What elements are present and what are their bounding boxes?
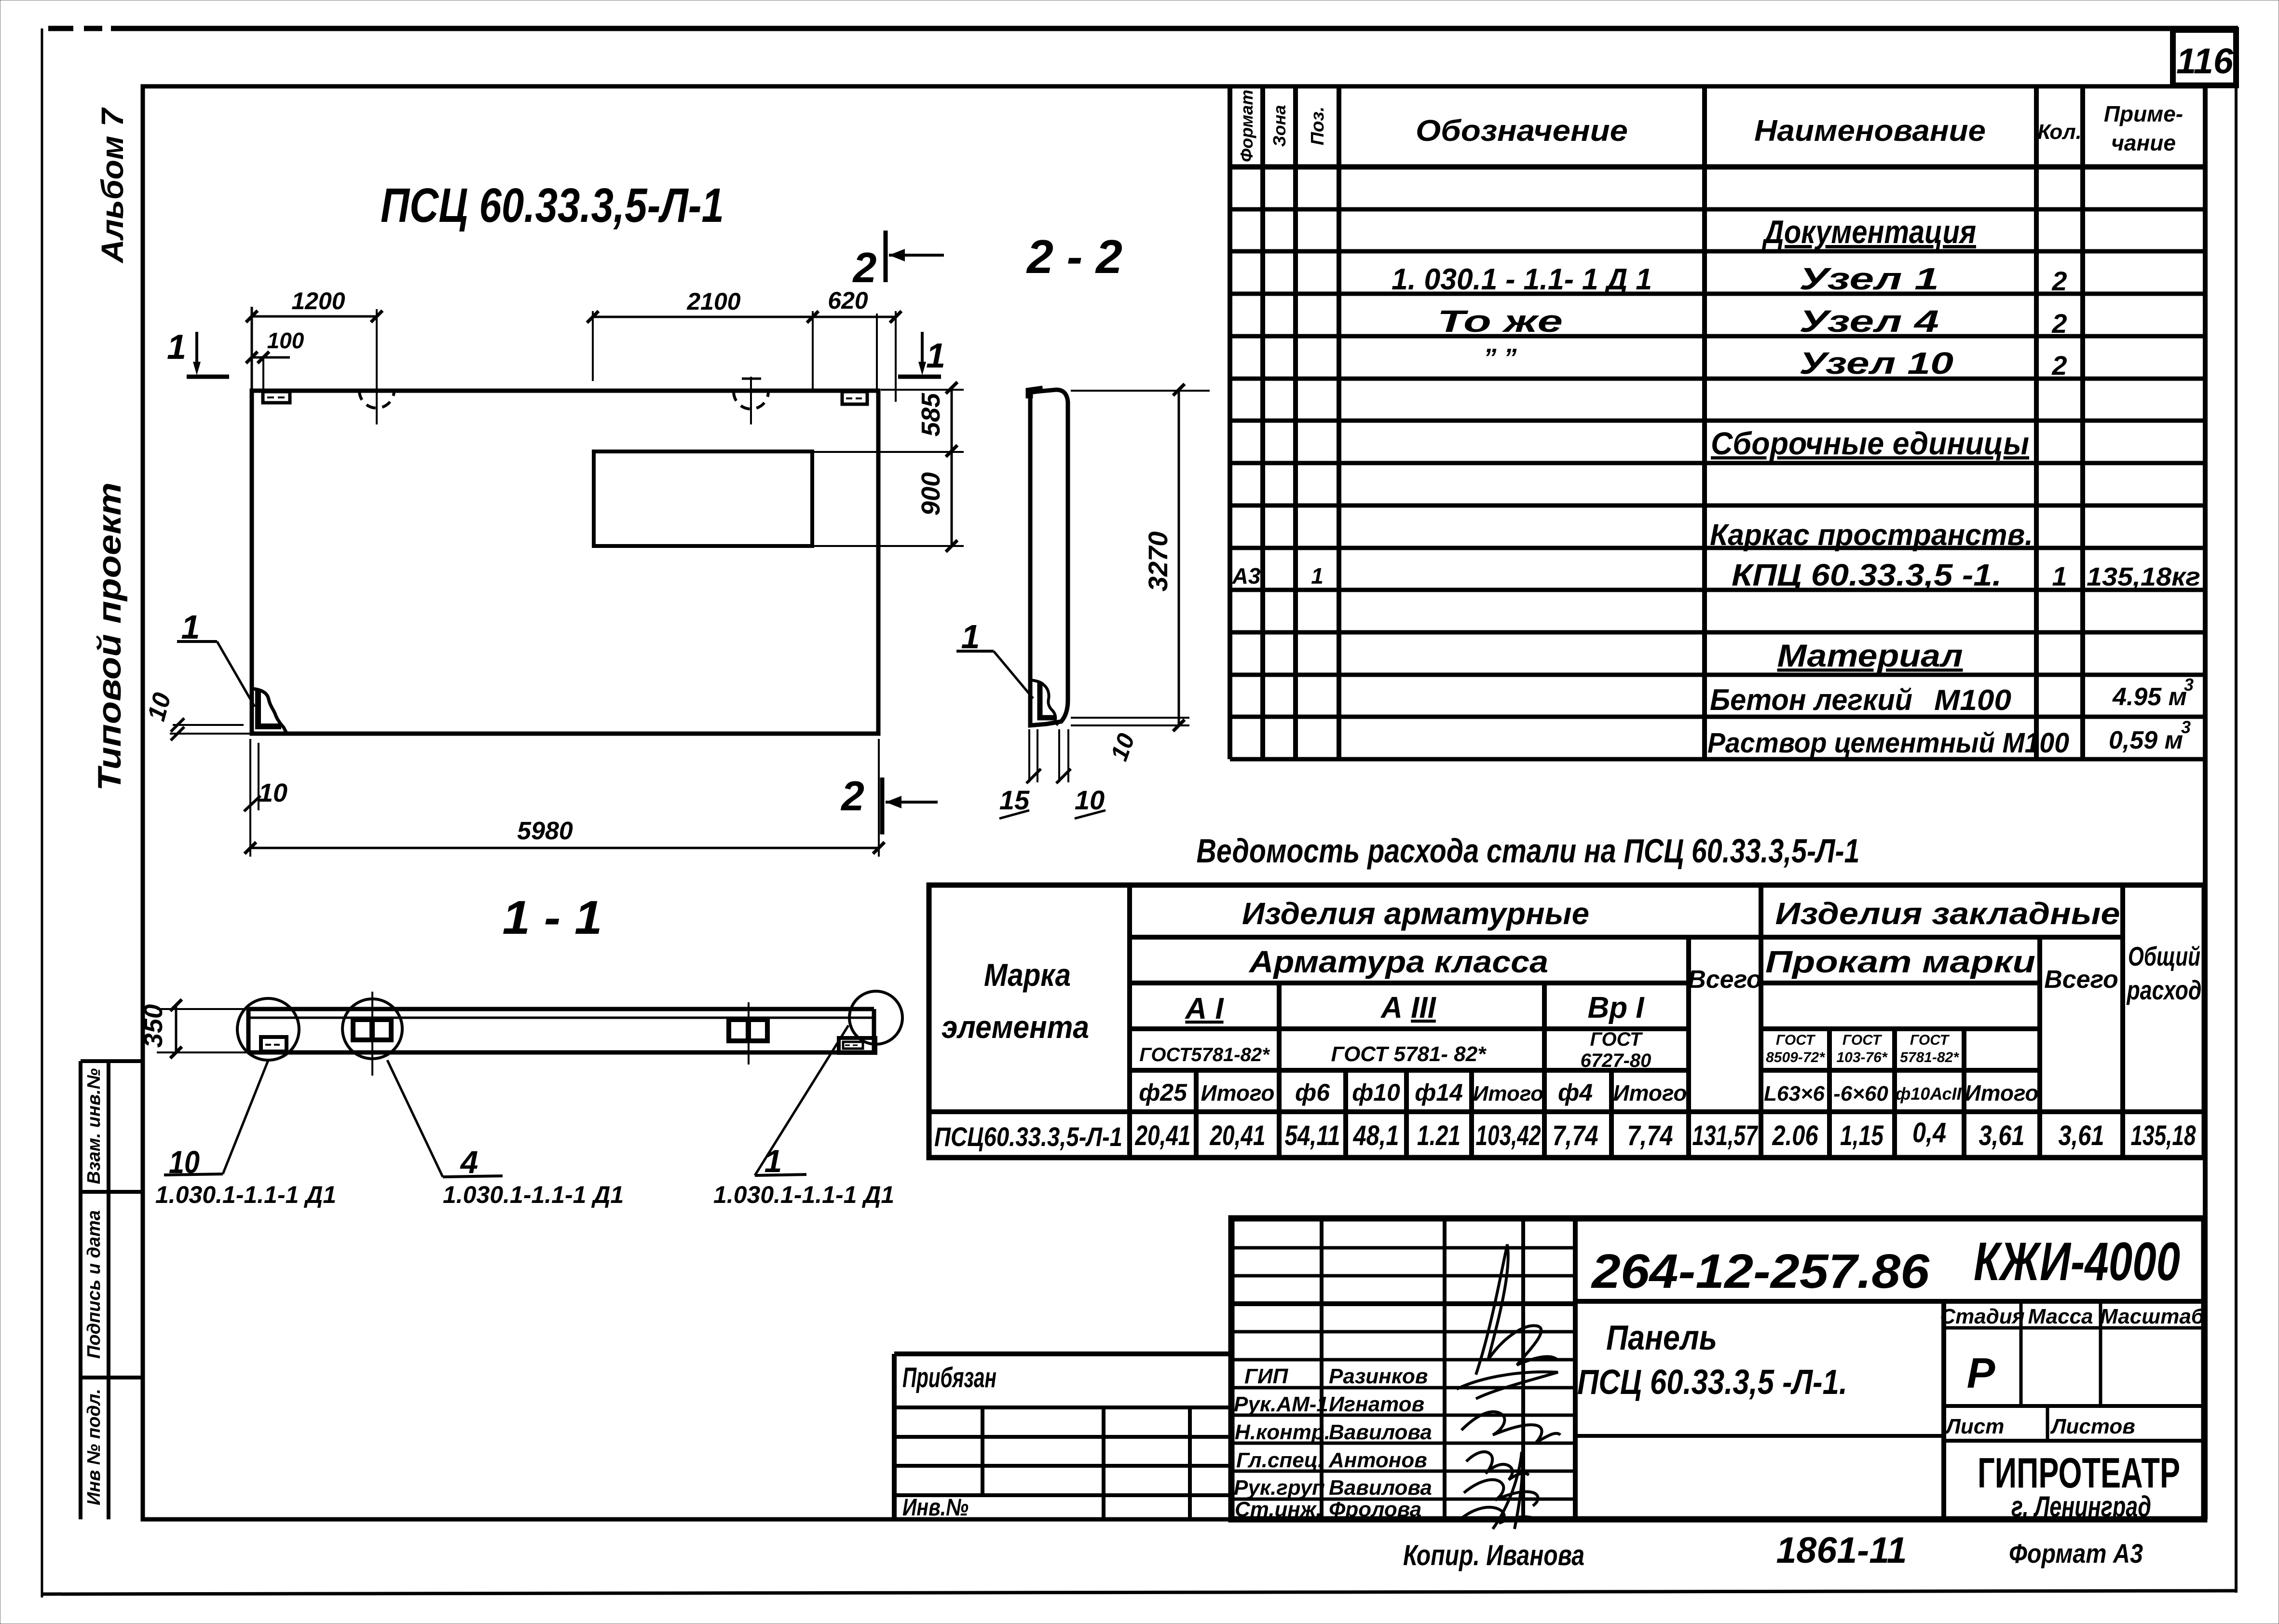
svg-text:4: 4 xyxy=(460,1144,478,1180)
svg-text:10: 10 xyxy=(259,778,287,807)
svg-text:Приме-: Приме- xyxy=(2104,101,2183,126)
title block roles and names xyxy=(1234,1365,1432,1521)
svg-text:Итого: Итого xyxy=(1201,1080,1275,1105)
svg-text:КЖИ-4000: КЖИ-4000 xyxy=(1974,1231,2180,1292)
svg-text:20,41: 20,41 xyxy=(1210,1120,1266,1151)
svg-text:2.06: 2.06 xyxy=(1772,1120,1818,1151)
section 1-1 panel strip xyxy=(248,1009,874,1052)
svg-text:То же: То же xyxy=(1437,304,1563,339)
svg-text:Фролова: Фролова xyxy=(1329,1498,1421,1521)
detail circle right xyxy=(849,991,902,1044)
svg-text:L63×6: L63×6 xyxy=(1764,1082,1825,1105)
title block left rows xyxy=(1231,1248,1575,1499)
svg-text:4.95 м: 4.95 м xyxy=(2112,683,2187,711)
spec row: Раствор цементный М100 xyxy=(1707,717,2191,759)
svg-text:131,57: 131,57 xyxy=(1692,1120,1759,1151)
svg-text:ПСЦ60.33.3,5-Л-1: ПСЦ60.33.3,5-Л-1 xyxy=(934,1121,1122,1152)
lifting loop right (dashed semicircle) xyxy=(734,377,768,424)
svg-text:Общий: Общий xyxy=(2128,941,2200,971)
svg-text:Формат: Формат xyxy=(1237,90,1256,162)
leader detail 4 with doc designation xyxy=(387,1060,624,1208)
title block outer frame xyxy=(1231,1218,2204,1519)
svg-text:1 - 1: 1 - 1 xyxy=(503,891,602,944)
svg-text:20,41: 20,41 xyxy=(1135,1120,1191,1151)
svg-text:1.030.1-1.1-1 Д1: 1.030.1-1.1-1 Д1 xyxy=(155,1181,336,1208)
svg-text:Стадия: Стадия xyxy=(1940,1305,2024,1328)
title block extension (Прибязан) xyxy=(894,1354,1231,1519)
spec row: Узел 10 xyxy=(1483,343,2067,381)
svg-text:Инв.№: Инв.№ xyxy=(902,1494,969,1521)
svg-text:135,18кг: 135,18кг xyxy=(2087,562,2200,591)
svg-text:Материал: Материал xyxy=(1777,638,1963,673)
svg-text:Рук.АМ-1: Рук.АМ-1 xyxy=(1234,1392,1328,1416)
svg-text:100: 100 xyxy=(267,328,304,353)
svg-text:103,42: 103,42 xyxy=(1476,1120,1541,1151)
svg-text:7,74: 7,74 xyxy=(1627,1120,1673,1151)
svg-text:Поз.: Поз. xyxy=(1308,107,1328,146)
svg-text:2: 2 xyxy=(840,773,864,819)
svg-text:Инв № подл.: Инв № подл. xyxy=(84,1389,104,1505)
svg-text:ГОСТ5781-82*: ГОСТ5781-82* xyxy=(1139,1044,1270,1065)
section mark 1 (left) xyxy=(167,328,229,377)
svg-text:ПСЦ 60.33.3,5-Л-1: ПСЦ 60.33.3,5-Л-1 xyxy=(381,178,724,232)
embedded channel (right middle) xyxy=(729,1002,767,1064)
steel table frame xyxy=(929,885,2204,1158)
svg-text:10: 10 xyxy=(169,1144,200,1180)
signatures scribbles xyxy=(1457,1244,1560,1529)
svg-text:Подпись и дата: Подпись и дата xyxy=(84,1210,104,1359)
svg-text:1: 1 xyxy=(2052,561,2067,591)
detail circle left xyxy=(237,998,299,1060)
spec row: Документация xyxy=(1762,214,1976,250)
svg-text:Листов: Листов xyxy=(2050,1415,2135,1438)
svg-text:3,61: 3,61 xyxy=(2059,1120,2104,1151)
svg-text:Итого: Итого xyxy=(1965,1080,2039,1105)
svg-text:Арматура класса: Арматура класса xyxy=(1248,944,1548,979)
side stamp boxes xyxy=(81,1061,143,1519)
steel table verticals xyxy=(1127,885,1132,1158)
panel outline xyxy=(252,391,878,734)
svg-text:Игнатов: Игнатов xyxy=(1329,1392,1424,1416)
svg-text:Типовой проект: Типовой проект xyxy=(91,482,128,791)
svg-text:Масштаб: Масштаб xyxy=(2100,1305,2205,1328)
svg-text:ГИП: ГИП xyxy=(1244,1365,1289,1388)
svg-text:1,15: 1,15 xyxy=(1840,1120,1884,1151)
svg-text:Наименование: Наименование xyxy=(1754,114,1986,148)
svg-text:2: 2 xyxy=(2051,266,2067,296)
svg-text:Узел 4: Узел 4 xyxy=(1799,304,1939,339)
dimension 5980 (bottom) xyxy=(245,739,885,857)
svg-text:чание: чание xyxy=(2111,130,2176,155)
svg-text:Гл.спец.: Гл.спец. xyxy=(1236,1448,1324,1472)
svg-text:6727-80: 6727-80 xyxy=(1581,1050,1651,1071)
dimensions 585 / 900 (right side) xyxy=(814,382,964,552)
steel table horizontals xyxy=(1130,935,2123,940)
dimension 100 xyxy=(246,328,304,389)
svg-text:1.030.1-1.1-1 Д1: 1.030.1-1.1-1 Д1 xyxy=(713,1181,894,1208)
svg-text:900: 900 xyxy=(916,472,945,516)
svg-text:-6×60: -6×60 xyxy=(1833,1082,1888,1105)
title block left columns xyxy=(1322,1218,1575,1519)
svg-text:Обозначение: Обозначение xyxy=(1416,114,1628,148)
svg-text:Рук.груп: Рук.груп xyxy=(1234,1476,1325,1500)
section mark 1 (right) xyxy=(898,332,945,377)
svg-text:1: 1 xyxy=(167,328,186,367)
svg-text:135,18: 135,18 xyxy=(2131,1120,2197,1151)
section mark 2 (top) xyxy=(852,231,944,291)
svg-text:Марка: Марка xyxy=(984,957,1071,993)
small dimension 10 below bottom-left corner xyxy=(244,743,287,811)
title block right section xyxy=(1941,1301,1946,1519)
svg-text:расход: расход xyxy=(2126,975,2202,1005)
svg-text:1200: 1200 xyxy=(291,287,345,314)
svg-text:Ведомость расхода стали на ПСЦ: Ведомость расхода стали на ПСЦ 60.33.3,5… xyxy=(1197,832,1860,870)
svg-text:3: 3 xyxy=(2181,717,2191,737)
svg-text:Альбом 7: Альбом 7 xyxy=(95,107,130,264)
svg-text:г. Ленинград: г. Ленинград xyxy=(2011,1490,2151,1523)
section mark 2 (bottom) xyxy=(840,773,938,834)
svg-text:0,4: 0,4 xyxy=(1912,1117,1946,1148)
svg-text:2 - 2: 2 - 2 xyxy=(1026,230,1122,283)
svg-text:5781-82*: 5781-82* xyxy=(1900,1050,1959,1065)
dimension 350 xyxy=(139,999,248,1058)
svg-text:Формат А3: Формат А3 xyxy=(2009,1538,2143,1569)
spec table header bottom xyxy=(1230,164,2205,170)
svg-text:10: 10 xyxy=(142,690,177,724)
svg-text:1. 030.1 - 1.1- 1 Д 1: 1. 030.1 - 1.1- 1 Д 1 xyxy=(1392,263,1652,296)
right border line xyxy=(2235,28,2238,1593)
svg-text:Всего: Всего xyxy=(1688,966,1762,994)
svg-text:Антонов: Антонов xyxy=(1328,1448,1427,1472)
svg-text:Панель: Панель xyxy=(1606,1319,1717,1357)
svg-text:10: 10 xyxy=(1105,730,1140,764)
detail circle middle xyxy=(342,999,402,1059)
left border line xyxy=(41,28,43,1597)
svg-text:116: 116 xyxy=(2176,41,2234,81)
svg-text:1861-11: 1861-11 xyxy=(1776,1530,1907,1571)
svg-text:264-12-257.86: 264-12-257.86 xyxy=(1591,1244,1930,1298)
embedded plate (right end, detail 1) xyxy=(839,1038,875,1053)
dimension 3270 xyxy=(1071,384,1210,731)
svg-text:ГОСТ: ГОСТ xyxy=(1842,1032,1883,1048)
svg-text:А III: А III xyxy=(1380,991,1436,1024)
svg-text:Сборочные единицы: Сборочные единицы xyxy=(1711,425,2029,461)
section 2-2 panel outline xyxy=(1030,390,1068,725)
lifting loop left (dashed semicircle) xyxy=(359,309,394,424)
svg-text:ГОСТ: ГОСТ xyxy=(1910,1032,1950,1048)
svg-text:Масса: Масса xyxy=(2028,1305,2093,1328)
page number box 116 xyxy=(2173,30,2236,85)
svg-text:Узел 10: Узел 10 xyxy=(1799,346,1953,381)
svg-text:А3: А3 xyxy=(1232,563,1261,588)
svg-text:Н.контр.: Н.контр. xyxy=(1235,1420,1330,1444)
svg-text:3,61: 3,61 xyxy=(1979,1120,2025,1151)
svg-text:элемента: элемента xyxy=(942,1009,1089,1045)
leader detail 1 with doc designation xyxy=(713,1025,894,1208)
svg-text:Итого: Итого xyxy=(1613,1080,1687,1105)
svg-text:ПСЦ 60.33.3,5 -Л-1.: ПСЦ 60.33.3,5 -Л-1. xyxy=(1577,1363,1847,1402)
embedded plate top-right xyxy=(842,392,867,404)
embedded channel (middle, detail 4) xyxy=(353,992,391,1076)
svg-text:Взам. инв.№: Взам. инв.№ xyxy=(84,1068,104,1184)
svg-text:Разинков: Разинков xyxy=(1329,1365,1428,1388)
small dimension 10 at corner (left, rotated) xyxy=(142,690,252,740)
svg-text:” ”: ” ” xyxy=(1483,343,1516,372)
svg-text:585: 585 xyxy=(916,393,945,437)
top border line xyxy=(48,26,2238,31)
spec table row lines xyxy=(1230,207,2205,212)
embedded plate top-left xyxy=(263,392,290,403)
section 2-2 corner thick mark top-left xyxy=(1029,389,1043,398)
svg-text:3: 3 xyxy=(2184,675,2194,695)
svg-text:Всего: Всего xyxy=(2044,966,2118,994)
svg-text:0,59 м: 0,59 м xyxy=(2109,726,2183,754)
svg-text:Итого: Итого xyxy=(1473,1082,1543,1105)
svg-text:Документация: Документация xyxy=(1762,214,1976,250)
svg-text:1.030.1-1.1-1 Д1: 1.030.1-1.1-1 Д1 xyxy=(443,1181,624,1208)
svg-text:М100: М100 xyxy=(1934,684,2011,716)
svg-text:3270: 3270 xyxy=(1143,532,1173,592)
leader detail 10 with doc designation xyxy=(155,1059,336,1208)
svg-text:Вавилова: Вавилова xyxy=(1329,1420,1432,1444)
svg-text:2: 2 xyxy=(2051,350,2067,381)
svg-text:Р: Р xyxy=(1967,1349,1995,1397)
dimensions 15 and 10 below section 2-2 xyxy=(999,729,1105,819)
svg-text:350: 350 xyxy=(139,1004,168,1048)
spec row: КПЦ 60.33.3,5-1 xyxy=(1232,558,2200,592)
embedded plate (left, detail 10) xyxy=(261,1037,287,1051)
svg-text:Узел 1: Узел 1 xyxy=(1799,261,1939,296)
svg-text:ГОСТ 5781- 82*: ГОСТ 5781- 82* xyxy=(1331,1042,1487,1066)
bottom border line xyxy=(42,1591,2236,1594)
svg-text:ф4: ф4 xyxy=(1558,1079,1593,1106)
svg-text:Ст.инж.: Ст.инж. xyxy=(1235,1498,1322,1521)
svg-text:Вавилова: Вавилова xyxy=(1329,1476,1432,1500)
spec row: Бетон легкий М100 xyxy=(1710,675,2194,717)
svg-text:54,11: 54,11 xyxy=(1285,1120,1340,1151)
svg-text:ф25: ф25 xyxy=(1139,1079,1187,1106)
svg-text:Изделия арматурные: Изделия арматурные xyxy=(1242,896,1589,931)
svg-text:2: 2 xyxy=(2051,308,2067,339)
svg-text:ф6: ф6 xyxy=(1295,1079,1330,1106)
svg-text:ф10: ф10 xyxy=(1352,1079,1400,1106)
svg-text:48,1: 48,1 xyxy=(1353,1120,1399,1151)
corner detail (узел 1) at panel bottom-left xyxy=(253,689,287,734)
svg-text:ф10АсII: ф10АсII xyxy=(1895,1084,1962,1104)
section 2-2 corner detail (узел 1) xyxy=(1031,680,1058,725)
svg-text:103-76*: 103-76* xyxy=(1836,1050,1887,1065)
svg-text:7,74: 7,74 xyxy=(1553,1120,1598,1151)
svg-text:Копир. Иванова: Копир. Иванова xyxy=(1403,1539,1584,1571)
title block middle divider xyxy=(1575,1299,2204,1304)
svg-text:5980: 5980 xyxy=(517,817,573,845)
svg-text:Зона: Зона xyxy=(1269,105,1289,147)
svg-text:Изделия закладные: Изделия закладные xyxy=(1775,896,2120,931)
detail callout 1 (section 2-2) xyxy=(956,618,1033,698)
svg-text:1: 1 xyxy=(764,1143,782,1179)
svg-text:1: 1 xyxy=(926,337,945,375)
main drawing frame xyxy=(143,86,2205,1519)
window opening xyxy=(594,451,812,546)
svg-text:Прокат марки: Прокат марки xyxy=(1765,944,2035,979)
svg-text:1: 1 xyxy=(1311,563,1324,588)
spec row: Узел 4 xyxy=(1437,304,2067,339)
svg-text:ГОСТ: ГОСТ xyxy=(1590,1029,1644,1050)
svg-text:КПЦ 60.33.3,5 -1.: КПЦ 60.33.3,5 -1. xyxy=(1732,558,2002,592)
spec table verticals xyxy=(1228,86,1232,759)
svg-text:ГОСТ: ГОСТ xyxy=(1776,1032,1816,1048)
svg-text:Прибязан: Прибязан xyxy=(902,1362,996,1393)
svg-text:2: 2 xyxy=(852,244,877,291)
dimension 620 xyxy=(813,287,901,402)
svg-text:Лист: Лист xyxy=(1945,1415,2005,1438)
svg-text:Бетон легкий: Бетон легкий xyxy=(1710,683,1912,717)
svg-text:8509-72*: 8509-72* xyxy=(1766,1050,1825,1065)
spec row: Узел 1 xyxy=(1392,261,2067,296)
svg-text:Вр I: Вр I xyxy=(1587,991,1645,1024)
dimension 2100 xyxy=(587,288,819,391)
dimension 1200 xyxy=(246,287,382,392)
svg-text:Кол.: Кол. xyxy=(2037,120,2082,144)
svg-text:Каркас пространств.: Каркас пространств. xyxy=(1710,519,2033,552)
svg-text:Раствор цементный М100: Раствор цементный М100 xyxy=(1707,727,2069,759)
svg-text:ф14: ф14 xyxy=(1415,1079,1463,1106)
svg-text:А I: А I xyxy=(1184,992,1224,1025)
detail callout 1 (plan) xyxy=(177,608,255,707)
svg-text:2100: 2100 xyxy=(686,288,740,315)
svg-text:1.21: 1.21 xyxy=(1417,1120,1460,1151)
svg-text:ГИПРОТЕАТР: ГИПРОТЕАТР xyxy=(1978,1449,2180,1497)
